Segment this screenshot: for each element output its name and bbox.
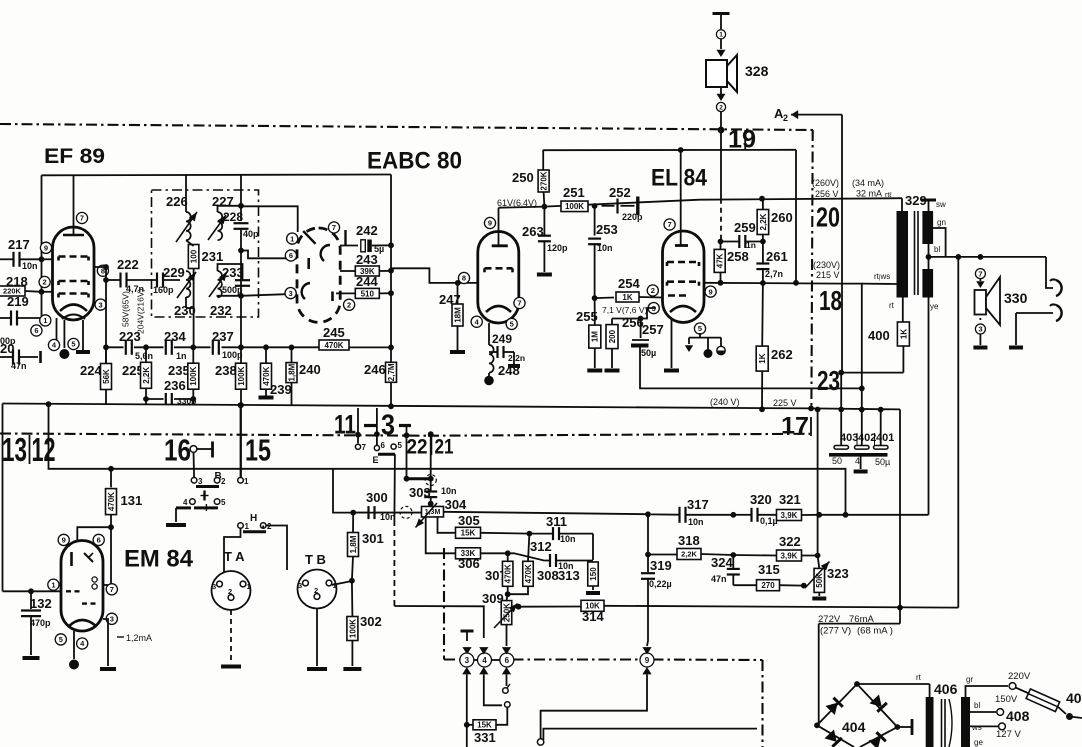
resistor 331 15K [467, 708, 508, 730]
svg-text:21: 21 [435, 436, 454, 459]
bar 478 [404, 476, 434, 482]
pin 8 [458, 272, 469, 283]
svg-text:220p: 220p [622, 212, 643, 222]
pin9 row [704, 282, 843, 285]
anode rail y150 [543, 149, 796, 151]
junction [428, 431, 434, 437]
testpoint 22 [407, 436, 428, 459]
svg-text:5: 5 [71, 340, 75, 349]
pin 6 wire [241, 251, 297, 259]
svg-text:270: 270 [761, 581, 775, 590]
label 315 [758, 562, 780, 577]
ground 313 [586, 591, 600, 595]
svg-text:T B: T B [305, 552, 326, 567]
pin 7 [76, 212, 87, 223]
separator [29, 435, 31, 464]
label 404 [842, 719, 866, 735]
junction [859, 386, 865, 392]
label 1,2mA [117, 633, 152, 643]
wire pin8 [94, 264, 109, 270]
wire H2-TB [263, 526, 287, 571]
capacitor 312 10n [508, 553, 593, 571]
pin 7 [664, 219, 675, 230]
resistor 225 2,2K [141, 347, 152, 405]
svg-text:7: 7 [332, 223, 336, 232]
coil 233 [218, 271, 222, 297]
label 308 [537, 568, 559, 583]
resistor 262 1K [756, 283, 768, 409]
transformer 406 primary [926, 684, 934, 747]
EABC80 arc2 [302, 283, 310, 299]
EM84 cathode arc [69, 620, 96, 626]
junction [143, 344, 149, 350]
speaker 330 coil [975, 290, 987, 315]
transformer 406 secondary [961, 697, 970, 747]
label 301 [362, 531, 384, 546]
svg-text:10n: 10n [441, 486, 457, 496]
junction [645, 511, 651, 517]
svg-text:470K: 470K [107, 492, 116, 511]
EABC80 diode2 plate [307, 258, 310, 269]
svg-text:56K: 56K [102, 369, 111, 384]
coil 248 [489, 323, 494, 373]
svg-text:257: 257 [642, 322, 664, 337]
svg-text:3: 3 [110, 615, 114, 624]
label 226 [166, 194, 188, 209]
switch contact b [505, 702, 511, 708]
resistor 301 1,8M [348, 513, 359, 581]
junction [542, 204, 548, 210]
label 246 [364, 362, 386, 377]
chassis dash-dot right vertical [811, 130, 812, 407]
svg-text:2: 2 [651, 286, 655, 295]
svg-text:258: 258 [727, 249, 749, 264]
svg-text:131: 131 [121, 493, 143, 508]
svg-text:3: 3 [465, 656, 470, 665]
label 249 [492, 332, 512, 346]
junction [730, 552, 736, 558]
phone jack lower [1016, 304, 1062, 321]
resistor 251 100K [561, 201, 588, 212]
svg-text:251: 251 [563, 185, 585, 200]
coil 226 [186, 175, 191, 240]
EL84 anode lead [680, 150, 682, 245]
junction dot 315-323 [801, 583, 807, 589]
svg-text:324: 324 [711, 555, 733, 570]
pin 2 [344, 299, 355, 310]
EM84 grid2 dashed [82, 602, 98, 604]
label 318 [678, 533, 700, 548]
pin 4 [48, 339, 59, 350]
svg-text:3: 3 [298, 581, 302, 590]
svg-text:2,2K: 2,2K [759, 213, 768, 230]
svg-text:270K: 270K [539, 171, 548, 190]
coil 227 arrow [208, 215, 226, 240]
junction [108, 524, 114, 530]
junction [978, 254, 984, 260]
wire 227 top [218, 206, 242, 212]
capacitor 320 0,1u [736, 508, 778, 526]
label 408 [1006, 708, 1030, 724]
svg-text:7: 7 [517, 299, 521, 308]
terminal 3 bars [364, 410, 411, 442]
svg-text:224: 224 [80, 363, 102, 378]
label 323 [827, 566, 849, 581]
triode top lead [498, 208, 500, 246]
TB pin2 [314, 586, 320, 599]
svg-text:1,8M: 1,8M [287, 363, 296, 381]
label 324 [711, 555, 733, 570]
junction [718, 127, 725, 134]
bridge left corner [814, 722, 820, 728]
resistor 231 100 [188, 245, 223, 269]
svg-text:262: 262 [771, 347, 793, 362]
bl line [929, 256, 1047, 258]
cathode bracket [689, 333, 721, 338]
wire 21 down [430, 434, 432, 492]
junction [759, 196, 765, 202]
svg-text:252: 252 [609, 185, 631, 200]
grid3 wire [612, 308, 656, 319]
junction [838, 407, 844, 413]
junction [355, 432, 361, 438]
EM84 grid dashed [66, 590, 82, 592]
svg-text:1K: 1K [899, 329, 908, 339]
volume signal line [333, 469, 367, 513]
svg-text:4: 4 [855, 456, 860, 466]
svg-text:6: 6 [97, 536, 101, 545]
label 303 [409, 485, 431, 500]
label 131 [121, 493, 143, 508]
svg-text:5: 5 [698, 324, 702, 333]
wire pin9 [42, 258, 54, 260]
bridge right T [897, 719, 912, 735]
svg-text:bl: bl [974, 701, 980, 710]
svg-text:204V(216V): 204V(216V) [136, 288, 146, 334]
svg-text:232: 232 [210, 303, 232, 318]
junction [955, 254, 961, 260]
svg-text:10n: 10n [597, 243, 613, 253]
junction [349, 578, 355, 584]
svg-text:ws: ws [971, 723, 982, 732]
svg-text:8: 8 [462, 274, 466, 283]
label 233 [222, 265, 244, 280]
svg-text:470K: 470K [524, 564, 533, 583]
TA shield lead [230, 610, 232, 663]
junction [645, 552, 651, 558]
svg-text:7,1 V(7,6 V): 7,1 V(7,6 V) [602, 305, 648, 315]
junction [39, 289, 45, 295]
EF89 anode lead [73, 175, 75, 236]
testpoint 13 [2, 431, 27, 468]
wire 3-4-6 [474, 659, 500, 661]
svg-text:5: 5 [59, 635, 63, 644]
resistor 244 510 [336, 288, 391, 298]
svg-text:T A: T A [224, 549, 245, 564]
svg-text:2,2K: 2,2K [681, 550, 697, 559]
TB pin1 [326, 580, 337, 590]
pin 7 [514, 297, 525, 308]
socket key half [717, 338, 725, 355]
connector 4 [478, 653, 492, 667]
label 217 [8, 237, 30, 252]
label 329 [905, 193, 927, 208]
grid feed corner [391, 268, 478, 283]
wire 15-B1 [238, 402, 244, 477]
svg-text:ye: ye [930, 302, 939, 311]
junction [388, 403, 394, 409]
label 263 [522, 224, 544, 239]
arrow [976, 318, 984, 330]
resistor 247 18M [452, 283, 463, 350]
rt label [889, 301, 895, 310]
terminal blob EM84 [69, 660, 79, 670]
ws tap [970, 723, 998, 732]
label 218 [6, 274, 28, 289]
EF89 grid2 dashed [59, 281, 89, 285]
transformer 329 secondary lower [922, 269, 933, 298]
label 262 [771, 347, 793, 362]
bottom dash-dot vertical [443, 548, 445, 660]
label 311 [546, 514, 567, 529]
label 253 [596, 222, 618, 237]
switch bar B [196, 485, 219, 488]
wire H1-TA [224, 529, 241, 572]
svg-text:50µ: 50µ [641, 348, 656, 358]
svg-text:312: 312 [530, 539, 552, 554]
arrow [479, 647, 488, 654]
svg-text:(260V): (260V) [812, 178, 839, 188]
pin 3 [648, 303, 659, 314]
svg-text:305: 305 [458, 513, 480, 528]
switch gnd [166, 508, 186, 525]
junction [897, 605, 903, 611]
speaker 330 plug7 [975, 269, 985, 279]
svg-text:227: 227 [212, 194, 234, 209]
resistor 313 150 [588, 534, 599, 590]
svg-text:243: 243 [356, 252, 378, 267]
svg-text:215 V: 215 V [816, 270, 840, 280]
arrow down [717, 94, 726, 101]
svg-text:219: 219 [7, 294, 29, 309]
svg-text:22: 22 [407, 436, 428, 459]
svg-text:1K: 1K [622, 293, 632, 302]
svg-text:235: 235 [168, 363, 190, 378]
ground 403 [854, 455, 868, 472]
svg-text:2,7n: 2,7n [765, 269, 783, 279]
svg-text:259: 259 [734, 220, 756, 235]
label 251 [563, 185, 585, 200]
svg-text:304: 304 [445, 497, 467, 512]
speaker ground [973, 334, 987, 348]
ground 256 [605, 369, 620, 373]
wire 233 bottom [218, 296, 242, 297]
wire 303 to pot [430, 504, 432, 507]
svg-text:10n: 10n [688, 517, 704, 527]
rectifier feed horizontal [819, 623, 900, 625]
svg-text:2,2n: 2,2n [508, 353, 525, 363]
pin 1 [287, 233, 298, 244]
capacitor 401 plate [874, 446, 889, 450]
pot 309 250K [501, 594, 512, 640]
terminal blob 248 [484, 373, 494, 385]
junction [388, 268, 394, 274]
separator [431, 434, 433, 455]
capacitor 217 10n [0, 252, 42, 271]
junction [388, 242, 394, 248]
ground 263 [537, 273, 552, 277]
junction [505, 550, 511, 556]
EF89 cathode leads [57, 318, 65, 348]
pin 9 [58, 534, 69, 545]
coil 226 arrow [176, 212, 197, 242]
resistor 250 270K [538, 150, 549, 207]
svg-text:4: 4 [482, 656, 487, 665]
pin 8 [97, 265, 108, 276]
svg-text:238: 238 [215, 363, 237, 378]
pin 6 [31, 325, 42, 336]
pin 6 [93, 534, 104, 545]
svg-text:5: 5 [398, 441, 403, 450]
antenna T over 3 [461, 631, 474, 641]
svg-text:1,8M: 1,8M [349, 535, 358, 553]
svg-text:309: 309 [482, 591, 504, 606]
wire 231 [186, 240, 194, 347]
label 222 [117, 257, 139, 272]
diode D3 [824, 729, 841, 746]
EABC80 triode bar [331, 292, 334, 302]
ground 239 [259, 396, 274, 400]
svg-text:321: 321 [779, 492, 801, 507]
speaker 330 plug3 [975, 324, 985, 334]
wire 402 [861, 410, 863, 446]
svg-text:150: 150 [589, 567, 598, 581]
wire plate to OT [843, 284, 862, 410]
svg-text:(68 mA ): (68 mA ) [857, 626, 893, 637]
svg-text:16: 16 [164, 433, 191, 468]
label 229 [163, 265, 185, 280]
svg-text:250: 250 [512, 170, 534, 185]
svg-text:(240 V): (240 V) [710, 397, 740, 407]
svg-text:234: 234 [164, 329, 186, 344]
svg-text:2: 2 [228, 587, 232, 596]
svg-text:272V: 272V [818, 614, 841, 625]
junction [759, 406, 765, 412]
wire o6 [373, 408, 386, 465]
testpoint 20 [816, 202, 840, 233]
svg-text:32 mA: 32 mA [856, 189, 882, 199]
triode cathode arc [486, 306, 511, 312]
svg-text:2: 2 [221, 477, 226, 486]
svg-text:300: 300 [366, 490, 388, 505]
svg-text:317: 317 [687, 497, 709, 512]
svg-text:225 V: 225 V [773, 398, 797, 408]
capacitor 259 1n [721, 235, 763, 250]
bridge top wire [857, 673, 930, 684]
label 250 [512, 170, 534, 185]
record wire L [394, 606, 483, 638]
transformer 329 secondary upper [922, 211, 933, 244]
junction [718, 239, 724, 245]
svg-text:H: H [250, 513, 257, 524]
switch bar H [243, 530, 266, 533]
svg-text:(34 mA): (34 mA) [852, 178, 884, 188]
svg-text:261: 261 [766, 249, 788, 264]
tube EABC80 dashed [297, 228, 340, 322]
EF89 anode bar [63, 234, 84, 237]
capacitor 500p [222, 280, 250, 295]
label 406 [934, 681, 958, 697]
TB pin3 [298, 580, 308, 590]
svg-text:18M: 18M [453, 307, 462, 323]
triode grid dashed [485, 268, 513, 272]
svg-text:0,1µ: 0,1µ [760, 516, 778, 526]
svg-text:3: 3 [978, 325, 982, 334]
wire 306-312 [481, 552, 508, 554]
label 238 [215, 363, 237, 378]
label 61V [497, 198, 537, 208]
EF89 grid1 dashed [59, 294, 89, 298]
label 256 [622, 315, 644, 330]
wire speaker line down [720, 130, 722, 199]
svg-text:330p: 330p [177, 396, 196, 406]
EM84 cathode lead [73, 631, 75, 659]
svg-text:2: 2 [314, 586, 318, 595]
label 232 [210, 303, 232, 318]
label 240V [710, 397, 740, 407]
plug 16 [190, 442, 212, 458]
svg-text:331: 331 [474, 730, 496, 745]
svg-text:7: 7 [668, 220, 672, 229]
svg-text:408: 408 [1006, 708, 1030, 724]
svg-text:3: 3 [289, 289, 293, 298]
bottom dash-dot [444, 658, 763, 661]
svg-text:2: 2 [783, 113, 788, 123]
speaker 330 cone [986, 277, 1000, 325]
junction [816, 512, 822, 518]
rotated volt label2 [136, 288, 146, 334]
svg-text:253: 253 [596, 222, 618, 237]
svg-text:9: 9 [62, 536, 66, 545]
label 300 [366, 490, 388, 505]
label 236 [164, 378, 186, 393]
EL84 anode bar [675, 244, 688, 247]
pin8 column [105, 267, 107, 365]
junction [263, 344, 269, 350]
svg-text:1: 1 [245, 522, 250, 531]
label 330 [1004, 290, 1028, 306]
svg-text:47n: 47n [11, 361, 27, 371]
svg-text:400: 400 [868, 328, 890, 343]
capacitor 234 1n [166, 340, 187, 361]
label 220 [0, 341, 14, 356]
TA pin2 [228, 587, 234, 600]
pin7 lead bar [340, 230, 358, 246]
svg-text:120p: 120p [547, 243, 568, 253]
svg-text:470K: 470K [504, 564, 513, 583]
junction [843, 512, 849, 518]
svg-text:100K: 100K [189, 366, 198, 385]
fb vertical [817, 410, 819, 515]
testpoint 17 [428, 413, 811, 440]
ye lead [929, 297, 940, 514]
junction [878, 407, 884, 413]
pin 4 [77, 638, 88, 649]
resistor 238 100K [236, 347, 247, 405]
pin 1 [48, 579, 59, 590]
switch contact a [503, 684, 510, 693]
label 257 [642, 322, 664, 337]
